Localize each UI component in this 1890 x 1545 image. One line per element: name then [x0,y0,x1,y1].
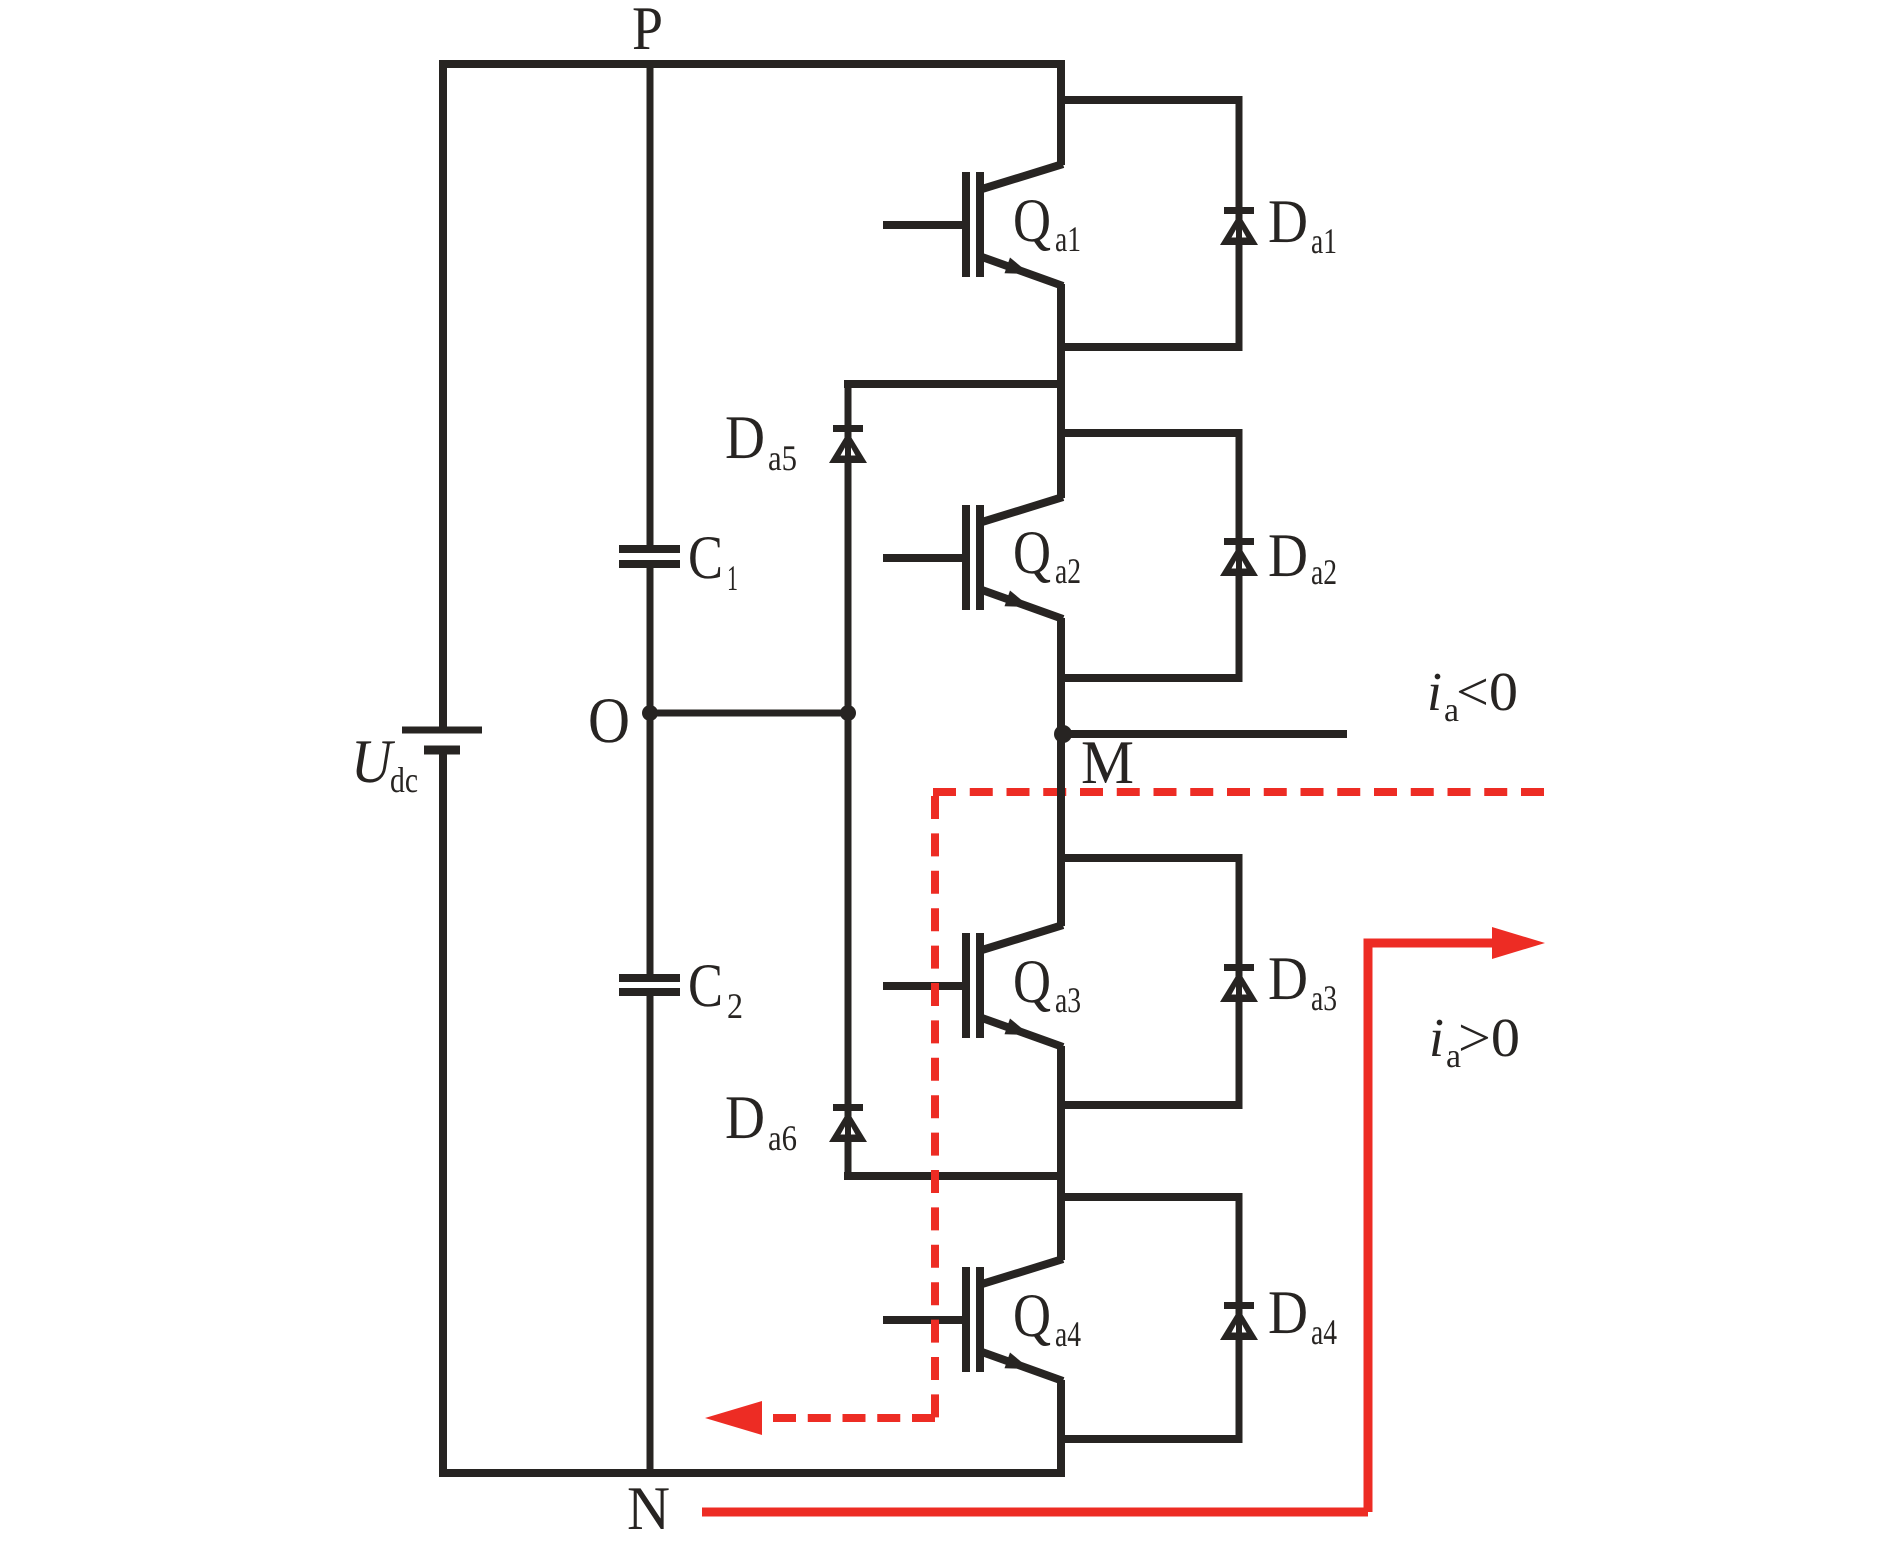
transistor Qa3 [883,925,1063,1047]
wire: leg segment Qa4 emitter to N rail [1057,1380,1065,1477]
node N label [627,1475,670,1543]
capacitor C2 [619,978,680,992]
wire: clamp top link [844,380,1061,388]
svg-text:dc: dc [390,760,418,800]
label Da1 [1268,188,1337,261]
wire: Da1 loop top [1057,96,1239,104]
svg-text:a1: a1 [1311,221,1337,261]
wire: red solid current path top horizontal [1364,939,1498,948]
arrow red solid path [1492,927,1545,959]
node M junction dot [1054,725,1072,743]
svg-text:M: M [1081,729,1134,797]
diode Da1 [1220,207,1258,245]
svg-text:Q: Q [1013,1282,1051,1350]
capacitor C1 [619,549,680,564]
wire: red solid current path ia>0 bottom [702,1508,1368,1517]
svg-text:a1: a1 [1055,219,1081,259]
svg-text:N: N [627,1475,670,1543]
transistor Qa4 [883,1259,1063,1381]
label Da3 [1268,945,1337,1018]
label Da6 [725,1084,797,1158]
label Udc [351,728,418,800]
label ia<0 [1427,661,1518,729]
svg-text:a5: a5 [768,438,797,478]
label C2 [688,952,743,1026]
transistor Qa1 [883,164,1063,286]
label C1 [688,524,738,598]
wire: dc bus lower segment [647,992,654,1477]
svg-text:a3: a3 [1055,980,1081,1020]
battery Udc [402,730,482,750]
svg-text:1: 1 [727,558,738,598]
svg-text:<0: <0 [1456,661,1518,722]
svg-text:a3: a3 [1311,978,1337,1018]
node O label [588,685,630,757]
wire: top rail P [439,60,1061,68]
label Qa1 [1013,187,1081,259]
svg-text:D: D [725,404,765,472]
label ia>0 [1429,1007,1520,1075]
svg-text:Q: Q [1013,948,1051,1016]
wire: leg segment Qa2 emitter to Qa3 collector (node M) [1057,618,1065,926]
transistor Qa2 [883,497,1063,619]
wire: Da2 loop bottom [1057,674,1239,682]
label Qa2 [1013,519,1081,591]
wire: clamp column vertical [845,384,852,1176]
svg-text:D: D [725,1084,765,1152]
wire: Da4 loop right [1236,1193,1243,1443]
label Da2 [1268,522,1337,592]
svg-text:C: C [688,524,723,592]
svg-text:D: D [1268,1279,1308,1347]
wire: Da3 loop right [1236,854,1243,1109]
svg-text:Q: Q [1013,187,1051,255]
diode Da2 [1220,538,1258,576]
wire: leg segment Qa3 emitter to Qa4 collector [1057,1046,1065,1260]
wire: red dashed current path vertical [931,796,939,1418]
diode Da4 [1220,1302,1258,1340]
wire: leg segment Qa1 emitter to Qa2 collector [1057,284,1065,498]
wire: left source branch upper [439,60,447,730]
wire: dc bus middle segment [647,564,654,978]
wire: Da4 loop bottom [1057,1435,1239,1443]
wire: red solid current path vertical [1364,943,1373,1512]
node M label [1081,729,1134,797]
svg-text:i: i [1427,661,1442,722]
label Da4 [1268,1279,1337,1352]
svg-text:i: i [1429,1007,1444,1068]
svg-text:D: D [1268,945,1308,1013]
wire: dc bus upper segment [647,60,654,549]
wire: phase leg segment P to Qa1 [1057,60,1065,165]
svg-text:a2: a2 [1311,552,1337,592]
svg-text:a4: a4 [1311,1312,1337,1352]
wire: Da2 loop right [1236,429,1243,682]
label Da5 [725,404,797,478]
svg-text:>0: >0 [1458,1007,1520,1068]
wire: O branch horizontal [650,710,848,717]
wire: bottom rail N [439,1469,1061,1477]
arrow red dashed path [705,1401,762,1435]
wire: left source branch lower [439,750,447,1477]
svg-text:P: P [632,0,663,63]
wire: Da3 loop top [1057,854,1239,862]
label Qa4 [1013,1282,1081,1354]
wire: Da4 loop top [1057,1193,1239,1201]
svg-text:O: O [588,685,630,757]
svg-text:a2: a2 [1055,551,1081,591]
node O junction dot on bus [642,705,658,721]
diode Da5 [829,425,867,463]
svg-text:2: 2 [727,986,743,1026]
svg-text:D: D [1268,188,1308,256]
svg-text:a6: a6 [768,1118,797,1158]
wire: Da1 loop right [1236,96,1243,351]
wire: red dashed current path ia<0 horizontal from M [933,788,1544,796]
node junction dot clamp column [840,705,856,721]
wire: clamp bottom link [844,1172,1061,1180]
svg-text:D: D [1268,522,1308,590]
node P label [632,0,663,63]
wire: red dashed current path bottom horizontal [773,1414,935,1422]
wire: Da1 loop bottom [1057,343,1239,351]
wire: output line from M [1063,730,1347,738]
diode Da6 [829,1104,867,1142]
svg-text:a4: a4 [1055,1314,1081,1354]
wire: Da2 loop top [1057,429,1239,437]
label Qa3 [1013,948,1081,1020]
wire: Da3 loop bottom [1057,1101,1239,1109]
svg-text:Q: Q [1013,519,1051,587]
diode Da3 [1220,964,1258,1002]
svg-text:C: C [688,952,723,1020]
